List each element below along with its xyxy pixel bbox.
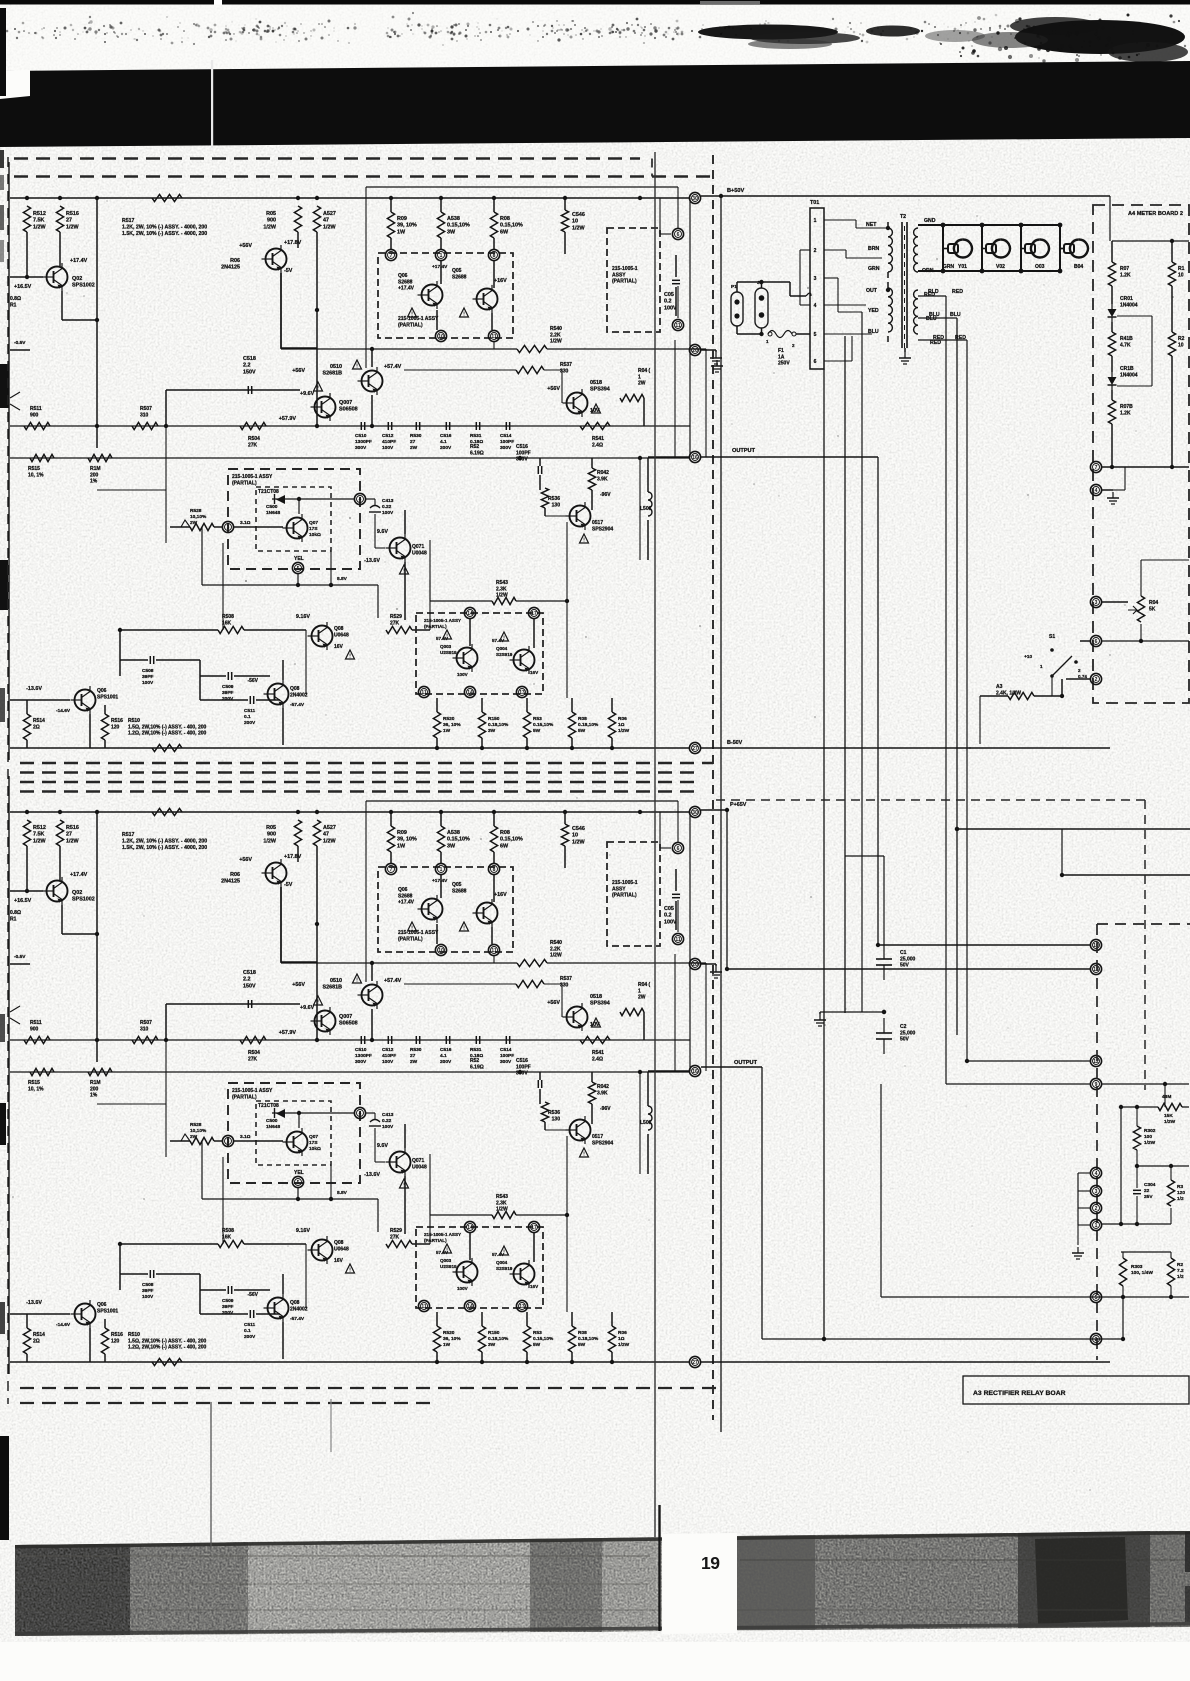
svg-text:+10: +10 <box>1024 654 1032 659</box>
svg-text:11: 11 <box>491 334 497 340</box>
svg-text:+17.8V: +17.8V <box>284 240 302 246</box>
svg-text:100V: 100V <box>457 672 469 677</box>
svg-text:16V: 16V <box>530 670 539 675</box>
svg-text:+17.4V: +17.4V <box>432 264 448 270</box>
svg-text:C50839PF100V: C50839PF100V <box>142 668 154 686</box>
svg-text:13: 13 <box>519 690 525 696</box>
svg-text:T21CT08: T21CT08 <box>258 489 279 495</box>
svg-text:4: 4 <box>814 303 817 309</box>
svg-text:BRN: BRN <box>868 246 879 252</box>
svg-text:57.4V: 57.4V <box>436 636 449 641</box>
svg-text:5: 5 <box>814 332 817 338</box>
svg-text:!: ! <box>349 654 351 660</box>
svg-text:!: ! <box>463 312 465 318</box>
svg-text:14: 14 <box>467 690 473 696</box>
svg-text:GND: GND <box>924 218 936 224</box>
svg-text:1: 1 <box>1095 1223 1098 1229</box>
svg-text:6: 6 <box>677 232 680 238</box>
svg-text:1: 1 <box>440 253 443 259</box>
svg-text:19: 19 <box>701 1553 720 1573</box>
svg-text:+16.5V: +16.5V <box>14 284 32 290</box>
svg-text:T01: T01 <box>810 200 819 206</box>
svg-text:10: 10 <box>1093 943 1099 949</box>
svg-text:6: 6 <box>814 359 817 365</box>
svg-text:4: 4 <box>359 497 362 503</box>
svg-text:13: 13 <box>1093 967 1099 973</box>
svg-text:7: 7 <box>390 253 393 259</box>
svg-text:OUT: OUT <box>866 288 878 294</box>
svg-text:O03: O03 <box>1035 264 1045 270</box>
svg-text:57.4V: 57.4V <box>492 638 505 643</box>
svg-text:3: 3 <box>227 525 230 531</box>
svg-text:30: 30 <box>692 196 698 202</box>
svg-text:7: 7 <box>1095 465 1098 471</box>
svg-text:-13.6V: -13.6V <box>364 558 380 564</box>
svg-text:-56V: -56V <box>247 678 258 684</box>
svg-text:+17.4V: +17.4V <box>70 258 88 264</box>
svg-text:R27.21/2: R27.21/2 <box>1177 1262 1184 1280</box>
svg-text:3: 3 <box>1095 600 1098 606</box>
svg-text:+9.6V: +9.6V <box>300 391 315 397</box>
svg-text:RED: RED <box>952 289 963 295</box>
svg-text:GRN: GRN <box>943 264 955 270</box>
svg-text:1: 1 <box>1040 664 1043 669</box>
svg-text:3.1Ω: 3.1Ω <box>240 520 251 526</box>
svg-text:3: 3 <box>814 276 817 282</box>
svg-text:20: 20 <box>692 348 698 354</box>
svg-text:+56V: +56V <box>547 386 560 392</box>
svg-text:3: 3 <box>1095 1189 1098 1195</box>
svg-text:6: 6 <box>1095 639 1098 645</box>
svg-text:8.8V: 8.8V <box>337 576 348 582</box>
svg-text:1: 1 <box>766 339 769 344</box>
svg-text:T2: T2 <box>900 214 906 220</box>
svg-text:RLD: RLD <box>928 289 939 295</box>
svg-text:R5432.3K1/2W: R5432.3K1/2W <box>496 580 508 599</box>
svg-text:4: 4 <box>1095 488 1098 494</box>
svg-text:A4 METER BOARD 2: A4 METER BOARD 2 <box>1128 211 1183 217</box>
svg-text:YEL: YEL <box>294 556 304 562</box>
svg-text:B-50V: B-50V <box>727 740 743 746</box>
svg-text:-0.5V: -0.5V <box>14 340 26 346</box>
svg-text:4: 4 <box>1095 1171 1098 1177</box>
svg-text:BLU: BLU <box>929 312 940 318</box>
svg-text:B+50V: B+50V <box>727 188 745 194</box>
svg-text:-96V: -96V <box>600 492 611 498</box>
svg-text:14: 14 <box>467 611 473 617</box>
svg-text:1: 1 <box>814 218 817 224</box>
svg-text:16V: 16V <box>334 644 344 650</box>
svg-text:9.16V: 9.16V <box>296 614 310 620</box>
svg-text:2: 2 <box>1095 677 1098 683</box>
svg-text:!: ! <box>411 312 413 318</box>
svg-text:S1: S1 <box>1049 634 1055 640</box>
svg-text:-5V: -5V <box>284 268 293 274</box>
svg-text:-13.6V: -13.6V <box>26 686 42 692</box>
svg-text:+57.4V: +57.4V <box>384 364 402 370</box>
svg-text:!: ! <box>317 386 319 392</box>
svg-text:GRN: GRN <box>868 266 880 272</box>
svg-text:2: 2 <box>792 343 795 348</box>
svg-text:43M: 43M <box>1162 1094 1171 1100</box>
svg-text:OUTPUT: OUTPUT <box>732 448 756 454</box>
svg-text:B04: B04 <box>1074 264 1083 270</box>
svg-text:10V: 10V <box>590 408 600 414</box>
svg-text:8: 8 <box>493 253 496 259</box>
svg-text:12: 12 <box>1093 1059 1099 1065</box>
svg-text:27: 27 <box>692 746 698 752</box>
svg-text:+16V: +16V <box>494 278 507 284</box>
svg-text:+57.9V: +57.9V <box>279 416 297 422</box>
svg-text:A3 RECTIFIER RELAY BOAR: A3 RECTIFIER RELAY BOAR <box>973 1390 1066 1397</box>
svg-text:2: 2 <box>814 248 817 254</box>
svg-text:10: 10 <box>438 334 444 340</box>
svg-text:17: 17 <box>531 611 537 617</box>
svg-text:P+65V: P+65V <box>730 802 747 808</box>
svg-text:9.6V: 9.6V <box>377 529 388 535</box>
svg-text:+56V: +56V <box>292 368 305 374</box>
svg-text:16: 16 <box>692 455 698 461</box>
svg-text:2: 2 <box>1095 1206 1098 1212</box>
svg-text:BLU: BLU <box>950 312 961 318</box>
svg-text:!: ! <box>356 364 358 370</box>
svg-text:5: 5 <box>297 566 300 572</box>
svg-text:!: ! <box>583 538 585 544</box>
svg-text:+56V: +56V <box>239 243 252 249</box>
svg-text:Y01: Y01 <box>958 264 967 270</box>
svg-text:YED: YED <box>868 308 879 314</box>
svg-text:BLU: BLU <box>868 329 879 335</box>
svg-text:2: 2 <box>1095 1337 1098 1343</box>
svg-text:11: 11 <box>421 690 427 696</box>
svg-text:-57.4V: -57.4V <box>290 702 305 708</box>
svg-text:NET: NET <box>866 222 877 228</box>
svg-text:V02: V02 <box>996 264 1005 270</box>
svg-text:OUTPUT: OUTPUT <box>734 1060 758 1066</box>
svg-text:R0423.9K: R0423.9K <box>597 470 609 482</box>
svg-text:R5402.2K1/2W: R5402.2K1/2W <box>550 326 562 345</box>
svg-text:R5412.4Ω: R5412.4Ω <box>592 436 604 448</box>
svg-text:5: 5 <box>1095 1295 1098 1301</box>
svg-text:-14.6V: -14.6V <box>56 708 71 714</box>
svg-text:11: 11 <box>675 323 681 329</box>
